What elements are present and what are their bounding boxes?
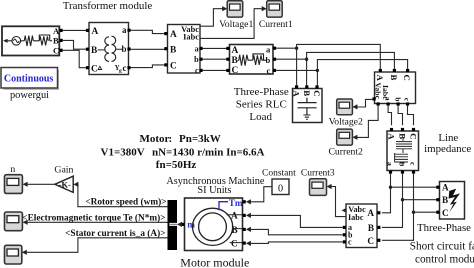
- svg-text:n: n: [10, 164, 15, 175]
- source icon: inductor with bar: [33, 35, 52, 45]
- svg-text:a: a: [384, 97, 393, 101]
- meas2 port c: [406, 102, 409, 105]
- source icon: unconnected arrow: [3, 39, 8, 43]
- svg-text:a: a: [122, 25, 127, 35]
- RLC port a: [273, 47, 276, 50]
- grounded capacitor bank block: [292, 89, 322, 123]
- bus selector bar: [168, 200, 178, 250]
- meas3 port B: [377, 226, 380, 229]
- wire line impedance c down to meas3 C with fault branch: [382, 174, 437, 241]
- svg-text:Continuous: Continuous: [4, 74, 54, 85]
- svg-text:B: B: [368, 223, 374, 233]
- svg-text:A: A: [232, 46, 239, 56]
- RLC port c: [273, 69, 276, 72]
- machine port Tm: [243, 200, 246, 203]
- svg-text:A: A: [375, 75, 385, 82]
- svg-text:Current2: Current2: [328, 147, 363, 158]
- svg-text:fn=50Hz: fn=50Hz: [156, 159, 197, 171]
- junction phase b: [305, 58, 308, 61]
- svg-text:Pn=3kW: Pn=3kW: [179, 133, 221, 145]
- source port C: [60, 49, 63, 52]
- svg-text:Three-Phase Fault: Three-Phase Fault: [417, 222, 474, 234]
- machine terminal lines: [227, 215, 243, 243]
- svg-text:Motor: Motor: [140, 133, 170, 145]
- svg-text:Iabc: Iabc: [183, 32, 199, 41]
- svg-text:impedance: impedance: [424, 143, 471, 155]
- meas1 port B: [164, 47, 167, 50]
- capacitor ground: [303, 115, 310, 119]
- svg-text:c: c: [266, 65, 270, 75]
- svg-text:Series RLC: Series RLC: [236, 99, 287, 111]
- svg-text:A: A: [170, 30, 177, 40]
- meas2 port Iabc (bottom): [377, 102, 380, 105]
- svg-text:c: c: [348, 238, 352, 247]
- line impedance port A: [390, 128, 393, 131]
- wire line impedance a down to meas3 A with fault branch: [382, 174, 437, 213]
- gain triangle: [55, 176, 73, 192]
- meas3 port b: [343, 233, 346, 236]
- cap port A: [295, 85, 298, 88]
- meas3 port A: [377, 211, 380, 214]
- svg-text:C: C: [408, 133, 418, 139]
- transformer port b: [127, 47, 130, 50]
- svg-text:A: A: [92, 27, 99, 37]
- svg-text:m: m: [187, 219, 195, 229]
- svg-text:Voltage2: Voltage2: [329, 116, 363, 127]
- wire meas3 b to machine B: [250, 229, 343, 234]
- svg-text:Constant: Constant: [262, 168, 296, 178]
- capacitor symbol: [298, 98, 317, 115]
- svg-text:C: C: [312, 90, 322, 96]
- wire source B to transformer B: [63, 40, 89, 49]
- three-phase source block: [2, 26, 60, 55]
- svg-text:nN=1430 r/min In=6.6A: nN=1430 r/min In=6.6A: [152, 147, 265, 159]
- machine port A: [243, 214, 246, 217]
- meas1 port A: [164, 32, 167, 35]
- three-phase series RLC load block: [230, 45, 274, 77]
- svg-text:Current1: Current1: [259, 20, 293, 30]
- transformer winding stubs: [98, 48, 123, 51]
- svg-text:B: B: [442, 195, 448, 205]
- transformer winding secondary: [112, 36, 116, 61]
- svg-text:b: b: [393, 97, 402, 101]
- three-phase fault block: [440, 182, 465, 220]
- meas1 port c: [199, 69, 202, 72]
- meas2 port C: [406, 69, 409, 72]
- svg-text:0: 0: [278, 183, 283, 194]
- wire transformer c to meas1 C: [131, 65, 166, 68]
- wire meas2 b to line impedance B: [398, 106, 402, 126]
- Voltage1 scope: [227, 1, 243, 17]
- wire transformer b to meas1 B: [131, 48, 166, 50]
- line impedance icon (rotated RL): [395, 138, 412, 167]
- wire meas1 Iabc to Current1 scope: [200, 9, 262, 39]
- machine port C: [243, 242, 246, 245]
- meas1 port b: [199, 58, 202, 61]
- scope n: [5, 175, 23, 194]
- meas3 port Vabc unconnected arrow: [342, 208, 347, 213]
- svg-text:-K-: -K-: [59, 180, 71, 189]
- bus selector input notch: [169, 223, 177, 226]
- junction fault C: [412, 211, 415, 214]
- Current1 scope: [267, 1, 283, 17]
- svg-text:A: A: [386, 133, 396, 140]
- wire meas2 c to line impedance C: [408, 106, 414, 126]
- svg-text:Voltage1: Voltage1: [219, 19, 253, 30]
- svg-text:B: B: [53, 36, 59, 46]
- wire transformer a to meas1 A: [131, 30, 166, 33]
- wire line impedance b down to meas3 B with fault branch: [382, 174, 437, 228]
- svg-text:C: C: [231, 239, 238, 249]
- svg-text:Motor module: Motor module: [180, 256, 249, 268]
- wire meas2 Iabc to Current2: [357, 106, 378, 138]
- V-I measurement block 1: [168, 25, 201, 76]
- svg-text:B: B: [232, 56, 238, 66]
- svg-text:C: C: [170, 62, 177, 72]
- svg-text:B: B: [397, 133, 407, 139]
- junction fault B: [401, 198, 404, 201]
- line impedance port C: [412, 128, 415, 131]
- svg-text:powergui: powergui: [10, 90, 49, 101]
- wire source C to transformer C: [63, 50, 89, 67]
- svg-text:C: C: [367, 236, 374, 246]
- scope stator current: [5, 245, 22, 264]
- wire phase b RLC to meas2 B: [276, 52, 394, 85]
- svg-text:<Stator current is_a (A)>: <Stator current is_a (A)>: [65, 228, 165, 239]
- meas2 port Vabc (left): [373, 97, 376, 100]
- svg-text:Load: Load: [249, 111, 272, 123]
- wire phase c RLC to meas2 C: [276, 60, 408, 86]
- svg-text:control module: control module: [415, 253, 474, 265]
- transformer delta symbol: [98, 66, 102, 69]
- source port A: [60, 29, 63, 32]
- svg-text:B: B: [389, 75, 399, 81]
- wire gain to scope n: [27, 183, 55, 185]
- junction phase a: [295, 47, 298, 50]
- svg-text:Tm: Tm: [229, 198, 243, 208]
- cap port C: [315, 85, 318, 88]
- svg-text:Iabc: Iabc: [348, 213, 364, 222]
- svg-text:g: g: [119, 68, 122, 74]
- svg-text:A: A: [367, 208, 374, 218]
- svg-text:<Electromagnetic torque Te (N*: <Electromagnetic torque Te (N*m)>: [22, 212, 165, 223]
- cap port B: [305, 85, 308, 88]
- svg-text:Transformer module: Transformer module: [63, 0, 153, 12]
- Voltage2 scope: [337, 99, 353, 115]
- meas1 port a: [199, 47, 202, 50]
- transformer port c: [127, 66, 130, 69]
- asynchronous machine block: [185, 198, 243, 251]
- wire bus selector is_a to scope3: [26, 238, 167, 253]
- V-I measurement block 2 (rotated): [374, 72, 416, 104]
- fault port A: [436, 186, 439, 189]
- svg-text:B: B: [91, 46, 97, 56]
- meas1 port C: [164, 63, 167, 66]
- line impedance port c: [412, 171, 415, 174]
- svg-text:Short circuit fault: Short circuit fault: [410, 241, 474, 253]
- svg-text:B: B: [170, 45, 176, 55]
- powergui block: [1, 68, 59, 91]
- svg-text:B: B: [302, 90, 312, 96]
- svg-text:C: C: [232, 66, 239, 76]
- line impedance port b: [401, 171, 404, 174]
- wire meas2 Vabc to Voltage2: [357, 99, 373, 107]
- V-I measurement block 3 (flipped): [346, 204, 377, 248]
- meas2 port a: [387, 102, 390, 105]
- junction fault A: [389, 186, 392, 189]
- svg-text:C: C: [53, 45, 59, 55]
- transformer port a: [127, 29, 130, 32]
- wire phase a RLC to meas2 A: [276, 44, 380, 85]
- wire bus selector wm to gain: [78, 184, 168, 206]
- meas3 port a: [343, 226, 346, 229]
- transformer block: [89, 23, 129, 75]
- svg-text:C: C: [442, 208, 449, 218]
- svg-text:b: b: [398, 162, 407, 166]
- svg-text:V1=380V: V1=380V: [101, 147, 145, 159]
- svg-text:b: b: [194, 55, 199, 64]
- RLC port B: [226, 58, 229, 61]
- svg-text:Gain: Gain: [54, 164, 73, 175]
- fault lightning bolt: [449, 189, 460, 213]
- svg-text:A: A: [292, 90, 302, 97]
- transformer winding primary: [105, 37, 109, 62]
- meas2 port A: [379, 69, 382, 72]
- source icon: AC voltage source: [8, 37, 25, 46]
- wire source A to transformer A: [63, 29, 89, 31]
- meas3 port c: [343, 240, 346, 243]
- source port B: [60, 39, 63, 42]
- meas2 port b: [397, 102, 400, 105]
- svg-text:C: C: [91, 65, 98, 75]
- junction phase c: [316, 69, 319, 72]
- wire meas2 a to line impedance A: [388, 106, 391, 126]
- source icon: resistor zigzag: [24, 36, 33, 46]
- RLC port b: [273, 58, 276, 61]
- svg-text:a: a: [266, 45, 271, 55]
- svg-text:A: A: [442, 183, 449, 193]
- wire meas1 b to RLC B: [203, 58, 228, 60]
- RLC load icon resistor: [238, 55, 253, 66]
- svg-text:a: a: [386, 162, 395, 166]
- meas2 port B: [393, 69, 396, 72]
- wire meas3 Iabc to Current3: [331, 187, 346, 217]
- svg-text:Three-Phase: Three-Phase: [234, 86, 289, 98]
- svg-text:c: c: [123, 63, 127, 73]
- Current3 scope: [310, 179, 327, 196]
- svg-text:c: c: [195, 66, 199, 75]
- fault port C: [436, 211, 439, 214]
- transformer port C: [86, 66, 89, 69]
- wire meas1 c to RLC C: [203, 69, 228, 71]
- line impedance port B: [401, 128, 404, 131]
- meas3 port C: [377, 239, 380, 242]
- svg-text:A: A: [231, 211, 238, 221]
- RLC port A: [226, 47, 229, 50]
- svg-text:a: a: [195, 44, 199, 53]
- machine port B: [243, 228, 246, 231]
- wire meas3 a to machine A: [250, 215, 343, 227]
- RLC load icon inductor with bar: [253, 54, 267, 65]
- line impedance block: [386, 131, 419, 171]
- wire constant to machine Tm: [250, 187, 272, 202]
- machine port m: [181, 223, 184, 226]
- svg-text:SI Units: SI Units: [197, 185, 231, 196]
- scope torque: [5, 212, 23, 231]
- svg-text::: :: [169, 133, 173, 145]
- wire meas1 a to RLC A: [203, 47, 228, 49]
- svg-text:C: C: [402, 75, 412, 81]
- Current2 scope: [337, 129, 353, 145]
- wire meas3 c to machine C: [250, 242, 343, 244]
- svg-text:<Rotor speed (wm)>: <Rotor speed (wm)>: [85, 196, 166, 207]
- wire meas1 Vabc to Voltage1 scope: [200, 9, 223, 27]
- Constant block: [272, 179, 289, 195]
- RLC port C: [226, 69, 229, 72]
- svg-text:Current3: Current3: [301, 168, 335, 178]
- transformer port B: [86, 48, 89, 51]
- transformer port A: [86, 29, 89, 32]
- machine rotor circles: [193, 208, 233, 245]
- wire bus selector Te to scope2: [27, 221, 168, 223]
- wire machine m to bus selector: [180, 223, 182, 225]
- line impedance port a: [389, 171, 392, 174]
- fault port B: [436, 198, 439, 201]
